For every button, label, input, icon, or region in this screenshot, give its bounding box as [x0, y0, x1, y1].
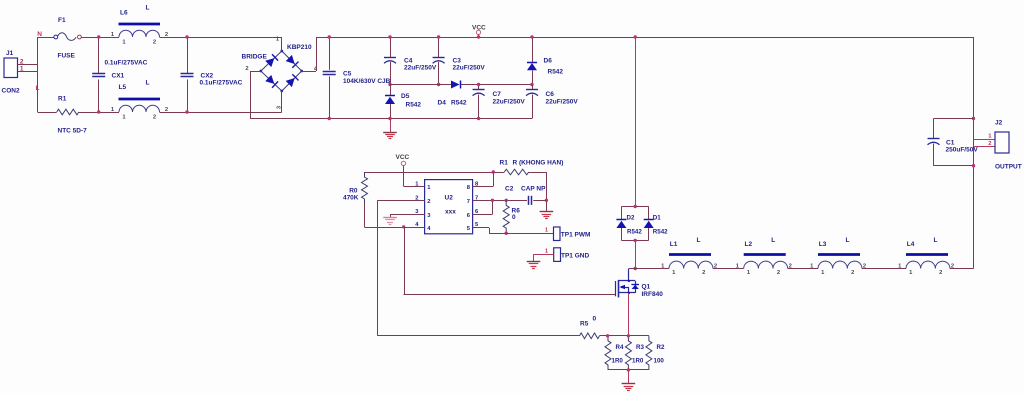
- svg-text:L3: L3: [819, 241, 827, 248]
- test point TP1 GND: [545, 248, 590, 262]
- svg-text:0: 0: [512, 214, 516, 221]
- inductor L5: [111, 80, 168, 121]
- svg-text:VCC: VCC: [396, 154, 410, 161]
- wire bridge pin4 to VCC rail: [302, 37, 317, 72]
- svg-text:VCC: VCC: [472, 25, 486, 32]
- wire mid DC line: [390, 84, 532, 86]
- wire R5 to resistor bank: [600, 335, 608, 337]
- svg-text:C2: C2: [505, 186, 514, 193]
- svg-text:C3: C3: [453, 58, 462, 65]
- svg-text:xxx: xxx: [445, 208, 456, 215]
- diode D6 R542: [527, 37, 563, 85]
- svg-text:R3: R3: [636, 344, 644, 351]
- node bank junctions: [606, 334, 630, 372]
- svg-text:2: 2: [851, 270, 854, 276]
- svg-text:22uF/250V: 22uF/250V: [453, 65, 486, 72]
- svg-text:L4: L4: [907, 241, 915, 248]
- node DC- ground junction: [388, 117, 391, 120]
- svg-text:CX1: CX1: [112, 73, 125, 80]
- wire bank bottom rail: [608, 369, 649, 371]
- node output C1 top junction: [972, 117, 975, 120]
- svg-text:2: 2: [153, 40, 156, 46]
- svg-text:2: 2: [427, 199, 430, 205]
- svg-text:KBP210: KBP210: [287, 44, 312, 51]
- node C2 right junction: [545, 199, 548, 202]
- svg-text:1R0: 1R0: [632, 358, 644, 365]
- svg-text:N: N: [37, 31, 42, 38]
- capacitor CX1 0.1uF/275VAC: [92, 37, 147, 112]
- svg-text:L: L: [697, 237, 701, 244]
- svg-text:F1: F1: [58, 17, 66, 24]
- wire U2 pin7 row: [473, 200, 547, 202]
- node pin8 riser junction: [492, 170, 495, 173]
- inductor L6: [111, 5, 168, 46]
- wire L2 output: [788, 268, 818, 270]
- wire bridge pin2 to DC- return: [250, 71, 261, 119]
- svg-text:250uF/50V: 250uF/50V: [946, 147, 979, 154]
- capacitor C3 22uF/250V: [433, 37, 486, 85]
- svg-text:L: L: [146, 5, 150, 12]
- fuse F1: [54, 17, 81, 60]
- transistor Q1 IRF840: [616, 269, 664, 299]
- wire bank to ground: [628, 370, 630, 384]
- wire top AC line left of fuse: [38, 37, 55, 39]
- svg-text:FUSE: FUSE: [58, 53, 76, 60]
- svg-text:D5: D5: [401, 93, 410, 100]
- svg-text:L: L: [36, 85, 40, 92]
- wire J1 vertical with N and L nets: [36, 31, 43, 112]
- thermistor R1 NTC 5D-7: [57, 96, 87, 135]
- capacitor C4 22uF/250V: [384, 37, 437, 85]
- svg-text:L: L: [934, 237, 938, 244]
- wire L1 output: [713, 268, 744, 270]
- svg-text:1R0: 1R0: [612, 358, 624, 365]
- power VCC symbol above U2: [396, 154, 410, 186]
- capacitor C6 22uF/250V: [526, 85, 578, 119]
- svg-text:22uF/250V: 22uF/250V: [404, 65, 437, 72]
- svg-text:7: 7: [467, 199, 470, 205]
- svg-text:D2: D2: [627, 215, 635, 222]
- resistor R4 1R0: [605, 336, 624, 370]
- svg-text:L: L: [771, 237, 775, 244]
- wire bottom AC left segment: [38, 112, 57, 114]
- svg-text:J2: J2: [995, 120, 1003, 127]
- wire L5 to bridge bottom: [160, 112, 282, 114]
- wire VCC to U2 pin1: [404, 186, 425, 188]
- resistor R1 R (KHONG HAN): [500, 160, 564, 175]
- node CX1 junctions: [97, 35, 100, 38]
- svg-text:100: 100: [654, 358, 665, 365]
- svg-text:R542: R542: [653, 229, 668, 236]
- wire L4 output: [950, 268, 974, 270]
- node CX2 junctions: [185, 35, 188, 38]
- wire R0 top line to R1: [365, 172, 505, 174]
- inductor L1: [661, 237, 717, 276]
- inductor L4: [898, 237, 954, 276]
- svg-text:D6: D6: [544, 58, 553, 65]
- svg-text:R (KHONG HAN): R (KHONG HAN): [513, 160, 564, 167]
- svg-text:NTC 5D-7: NTC 5D-7: [58, 128, 88, 135]
- svg-text:R542: R542: [406, 102, 422, 109]
- wire L3 output: [862, 268, 906, 270]
- wire output right vertical: [973, 37, 975, 269]
- svg-text:R542: R542: [627, 229, 642, 236]
- svg-text:C7: C7: [493, 91, 502, 98]
- connector J2 OUTPUT: [974, 120, 1022, 171]
- svg-text:2: 2: [702, 270, 705, 276]
- connector J1 CON2: [2, 50, 38, 95]
- wire U2 pin2 to current sense: [377, 200, 579, 335]
- diode D4 R542: [438, 81, 467, 107]
- svg-text:L: L: [846, 237, 850, 244]
- diode D2 R542: [616, 215, 642, 236]
- wire switch node to L1: [629, 268, 669, 270]
- test point TP1 PWM: [545, 227, 591, 241]
- resistor R3 1R0: [625, 336, 644, 370]
- wire U2 pin3 to ground: [390, 214, 425, 217]
- wire VCC rail: [316, 37, 974, 39]
- svg-text:R4: R4: [616, 344, 624, 351]
- svg-text:CON2: CON2: [2, 88, 20, 95]
- wire Q1 source down: [628, 293, 630, 336]
- capacitor C1 250uF/50V: [928, 119, 979, 166]
- node pin4 gate junction: [402, 225, 405, 228]
- svg-text:D1: D1: [653, 215, 661, 222]
- wire U2 pin8 riser: [473, 172, 494, 187]
- capacitor CX2 0.1uF/275VAC: [181, 37, 243, 112]
- svg-text:2: 2: [245, 66, 248, 72]
- svg-text:2: 2: [153, 115, 156, 121]
- bridge rectifier BRIDGE KBP210: [242, 37, 318, 110]
- svg-text:OUTPUT: OUTPUT: [995, 164, 1022, 171]
- svg-text:2: 2: [988, 141, 991, 147]
- wire R1 to CX1 bottom: [79, 112, 119, 114]
- wire U2 pin6 riser: [473, 200, 493, 214]
- svg-text:0: 0: [593, 316, 597, 323]
- svg-text:2: 2: [20, 59, 24, 66]
- svg-text:1: 1: [20, 66, 24, 73]
- svg-text:L1: L1: [670, 241, 678, 248]
- resistor R5 0: [580, 316, 600, 339]
- svg-text:L6: L6: [120, 10, 128, 17]
- svg-text:104K/630V CJB: 104K/630V CJB: [343, 78, 391, 85]
- svg-text:U2: U2: [445, 194, 454, 201]
- svg-text:TP1 PWM: TP1 PWM: [561, 232, 591, 239]
- ground at U2 pin3: [383, 217, 397, 219]
- diode pair box wires: [621, 207, 648, 241]
- wire DC- return line: [250, 118, 532, 120]
- svg-text:22uF/250V: 22uF/250V: [493, 99, 526, 106]
- svg-text:L: L: [146, 80, 150, 87]
- node output C1 bottom junction: [972, 164, 975, 167]
- inductor L3: [810, 237, 866, 276]
- wire D pair to switch node: [635, 240, 637, 268]
- wire TP1 GND to ground: [534, 254, 554, 261]
- capacitor C7 22uF/250V: [473, 85, 526, 119]
- svg-text:0.1uF/275VAC: 0.1uF/275VAC: [200, 80, 243, 87]
- ground below resistor bank: [622, 383, 636, 385]
- resistor R0 470K: [343, 172, 368, 204]
- svg-text:2: 2: [777, 270, 780, 276]
- svg-text:Q1: Q1: [642, 284, 651, 291]
- svg-text:R5: R5: [580, 321, 589, 328]
- wire bridge pin1 riser: [281, 37, 283, 51]
- svg-text:0.1uF/275VAC: 0.1uF/275VAC: [105, 60, 148, 67]
- resistor R2 100: [646, 336, 665, 370]
- svg-text:R1: R1: [58, 96, 67, 103]
- ground after bridge: [383, 119, 397, 139]
- power VCC symbol on rail: [472, 25, 486, 38]
- inductor L2: [736, 237, 792, 276]
- svg-text:R542: R542: [548, 69, 564, 76]
- svg-text:C5: C5: [343, 71, 352, 78]
- ground below R1 C2: [540, 211, 554, 213]
- svg-text:J1: J1: [6, 50, 14, 57]
- svg-text:CX2: CX2: [201, 73, 214, 80]
- wire R1 right to C2 node: [529, 172, 547, 212]
- wire bridge pin3 riser: [281, 91, 283, 112]
- svg-text:C1: C1: [946, 140, 955, 147]
- wire fuse to CX1 node: [81, 37, 119, 39]
- diode D5 R542: [385, 85, 421, 119]
- svg-text:R2: R2: [657, 344, 665, 351]
- wire U2 pin5 to TP1 PWM: [473, 228, 554, 234]
- svg-text:CAP NP: CAP NP: [521, 186, 546, 193]
- svg-text:R0: R0: [349, 188, 358, 195]
- svg-text:R542: R542: [451, 100, 467, 107]
- wire VCC rail to D2 D1 pair: [635, 37, 637, 207]
- ground at TP1 GND: [527, 261, 541, 263]
- diode D1 R542: [644, 215, 668, 236]
- resistor R6 0: [503, 200, 520, 233]
- wire L6 to bridge: [160, 37, 282, 39]
- svg-text:22uF/250V: 22uF/250V: [546, 99, 579, 106]
- svg-text:2: 2: [939, 270, 942, 276]
- svg-text:BRIDGE: BRIDGE: [242, 54, 268, 61]
- svg-text:470K: 470K: [343, 195, 359, 202]
- capacitor C2 CAP NP: [505, 186, 546, 205]
- wire R0 bottom to U2 pin4: [365, 204, 425, 228]
- op-amp U2 xxx IC box: [415, 180, 479, 234]
- svg-text:C4: C4: [404, 58, 413, 65]
- svg-text:IRF840: IRF840: [642, 291, 664, 298]
- svg-text:L2: L2: [745, 241, 753, 248]
- svg-text:TP1 GND: TP1 GND: [561, 253, 589, 260]
- svg-text:R1: R1: [500, 160, 509, 167]
- svg-text:C6: C6: [546, 91, 555, 98]
- capacitor C5 104K/630V CJB: [323, 37, 391, 119]
- wire U2 pin4 to Q1 gate: [404, 227, 616, 295]
- svg-text:L5: L5: [119, 84, 127, 91]
- svg-text:D4: D4: [438, 100, 447, 107]
- wire bank top rail: [608, 335, 649, 337]
